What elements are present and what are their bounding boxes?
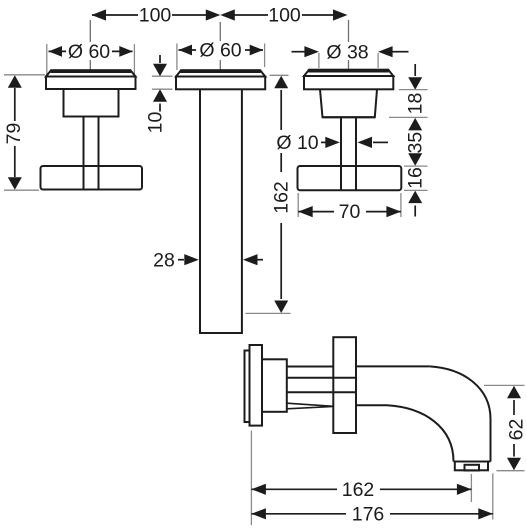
spout tube top line: [356, 365, 430, 367]
right column 18/35/16: leader above: [414, 64, 416, 76]
arrow 176 right: [478, 508, 493, 519]
left handle cross bar: [41, 166, 143, 190]
middle spout pipe: [199, 89, 243, 333]
arrow 162 left: [251, 484, 266, 495]
arrow 10 down: [153, 64, 167, 77]
bowtie arrows middle of top dim: [206, 9, 235, 20]
arrow D10 inward-right: [325, 137, 340, 148]
dimension 62 line: [513, 400, 515, 457]
svg-text:Ø 60: Ø 60: [68, 41, 110, 63]
extension line rosette bottom right: [399, 89, 428, 91]
dimension 162 line segments: [280, 90, 282, 299]
svg-text:162: 162: [342, 479, 375, 501]
right handle cross bar: [298, 166, 402, 190]
dimension 100-100 top line: [92, 14, 341, 16]
centerline right handle: [348, 20, 350, 70]
svg-text:Ø 38: Ø 38: [326, 41, 368, 63]
dimension 176 line: [251, 513, 492, 515]
middle rosette: [176, 70, 265, 89]
assembly: cartridge housing: [262, 359, 287, 412]
dimension 162 bottom extension line: [246, 312, 291, 314]
dimension 70 line: [298, 211, 401, 213]
dimension 162 bottom arrow down: [274, 301, 288, 314]
dimension D60 left: dim line: [49, 50, 133, 52]
arrow right of top 100 dim: [333, 9, 348, 20]
svg-text:28: 28: [153, 249, 175, 271]
arrow D60 left outward-left: [49, 46, 63, 57]
arrow D10 inward-left: [358, 137, 373, 148]
arrow 10 up: [153, 89, 167, 102]
right rosette thick top edge: [309, 69, 389, 73]
dimension 62: bottom extension line: [497, 470, 525, 472]
arrow 62 down: [507, 458, 521, 471]
assembly: wall flange: [333, 337, 356, 433]
svg-text:16: 16: [404, 167, 426, 189]
arrow 70 right: [386, 206, 401, 217]
dimension 62: top extension line (tube axis): [484, 384, 525, 386]
svg-text:100: 100: [139, 5, 172, 27]
extension line bar top right: [404, 165, 428, 167]
svg-text:62: 62: [506, 419, 527, 441]
dimension 10: extension lines: [152, 76, 173, 89]
assembly: pipe bottom inner line: [287, 391, 356, 393]
dimension D60 left: extension lines: [47, 44, 135, 77]
spout outer curve: [430, 366, 491, 461]
dimension 79: extension lines: [4, 75, 45, 190]
dimension 28 line: [178, 259, 263, 261]
centerline left handle: [89, 20, 91, 71]
dimension D38 right: dim line segments: [292, 51, 409, 53]
spout end edge: [454, 461, 491, 463]
arrow D60 middle right: [250, 45, 264, 56]
svg-text:79: 79: [3, 123, 25, 145]
left rosette thick top edge: [51, 69, 132, 73]
svg-text:18: 18: [404, 93, 426, 115]
arrow D38 inward-left: [378, 46, 393, 57]
aerator nozzle inner: [465, 465, 480, 471]
arrow 70 left: [298, 206, 313, 217]
dimension 162 bottom line: [251, 488, 471, 490]
svg-text:100: 100: [268, 5, 301, 27]
svg-text:10: 10: [145, 112, 167, 134]
arrow 28 inward-left: [243, 254, 258, 265]
extension line sleeve bottom right: [389, 116, 428, 118]
left handle sleeve: [64, 89, 119, 117]
arrow 16 bottom up: [408, 191, 422, 204]
svg-text:176: 176: [352, 503, 385, 525]
centerline middle spout: [219, 22, 221, 71]
dimension 162 left column: top extension line: [270, 74, 289, 76]
dimension 70: extension lines: [298, 193, 401, 217]
dimension 162 top arrow up: [274, 76, 288, 89]
spout tube bottom line: [356, 404, 387, 406]
aerator nozzle outer: [455, 462, 488, 471]
svg-text:Ø 60: Ø 60: [199, 40, 241, 62]
arrow 79 up: [8, 75, 22, 88]
arrow left of top 100 dim: [92, 9, 107, 20]
arrow 79 down: [8, 177, 22, 190]
spout inner curve: [387, 405, 454, 461]
assembly: in-wall main body: [250, 345, 263, 426]
arrow 176 left: [251, 508, 266, 519]
dimension 10 line: [159, 55, 161, 112]
dimension D60 middle: dim line: [179, 49, 264, 51]
dimension D60 middle: extension lines: [177, 44, 265, 71]
arrow D60 left outward-right: [119, 46, 133, 57]
arrow 35 bottom down: [408, 153, 422, 166]
leader below 16 arrow: [414, 206, 416, 217]
dimension 162/176 left extension line: [250, 431, 252, 526]
arrow D60 middle left: [179, 45, 193, 56]
dimension 176: right extension line: [492, 473, 494, 519]
assembly: back plate: [245, 351, 250, 423]
right sleeve bottom edge: [323, 116, 375, 118]
right handle sleeve tapered: [320, 89, 377, 117]
svg-text:Ø 10: Ø 10: [276, 132, 318, 154]
assembly: pipe top outer line: [287, 366, 334, 368]
right handle stem: [341, 117, 356, 189]
arrow 18 top down: [408, 77, 422, 90]
left handle rosette: [46, 70, 136, 89]
arrow 62 up: [507, 386, 521, 399]
assembly: pipe top inner line: [287, 377, 356, 379]
arrow 162 right: [457, 484, 472, 495]
arrow 35 top up: [408, 118, 422, 130]
svg-text:162: 162: [271, 181, 293, 214]
dimension D10 line: [321, 141, 388, 143]
svg-text:35: 35: [404, 132, 426, 154]
middle rosette thick top edge: [181, 69, 261, 73]
dimension 79 line: [14, 88, 16, 177]
dimension 162 bottom: right extension line: [470, 474, 472, 502]
extension line bar bottom right: [404, 189, 428, 191]
dimension D38 right: extension lines: [319, 53, 378, 68]
right rosette: [304, 70, 393, 90]
assembly: tapered wedge lines: [287, 403, 334, 409]
arrow 28 inward-right: [184, 254, 199, 265]
left handle stem: [84, 117, 99, 190]
svg-text:70: 70: [339, 201, 361, 223]
arrow D38 inward-right: [304, 46, 319, 57]
